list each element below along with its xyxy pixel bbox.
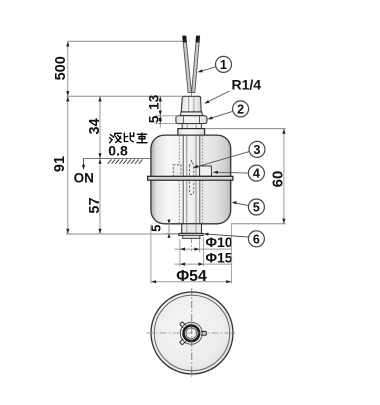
- hub tab upper-left: [180, 322, 186, 328]
- balloon 3: [249, 141, 265, 157]
- dimension line Φ10: [175, 248, 232, 250]
- leader 3: [194, 152, 249, 168]
- reference line at bottom of 91 dim: [66, 233, 178, 235]
- svg-text:Φ54: Φ54: [176, 268, 207, 285]
- balloon 2: [233, 101, 249, 117]
- ON leader arrow: [83, 159, 85, 167]
- reed switch capsule (hidden): [189, 161, 193, 195]
- guide tube outer lines: [182, 136, 184, 224]
- dimension line Φ15: [175, 263, 232, 265]
- hex nut facet lines: [182, 116, 184, 123]
- svg-text:Φ15: Φ15: [206, 249, 233, 265]
- float body: [151, 135, 231, 224]
- dimension 5 (stub): [168, 219, 170, 238]
- hex nut: [176, 116, 207, 124]
- balloon 6: [248, 231, 264, 247]
- bottom view vertical centerline: [191, 288, 193, 378]
- leader 1: [199, 67, 216, 72]
- cap body (threaded plug upper): [181, 96, 201, 112]
- magnet holder right: [200, 166, 212, 176]
- dimension line 500/91: [67, 41, 69, 234]
- svg-text:Φ10: Φ10: [206, 234, 233, 250]
- stub bore lines: [186, 224, 188, 238]
- float flange ring: [148, 176, 233, 180]
- dimension 5 (nut height): [159, 116, 162, 121]
- stub tip: [183, 235, 200, 238]
- svg-text:4: 4: [253, 167, 260, 181]
- extension line nut top: [155, 115, 178, 117]
- svg-text:60: 60: [270, 171, 287, 188]
- neck bore lines: [186, 124, 188, 129]
- magnet holder left (hidden): [173, 165, 181, 177]
- dimension line 60: [283, 129, 285, 224]
- balloon 5: [248, 199, 264, 215]
- bottom view hub outer ring: [180, 322, 202, 344]
- dimension 13 (cap height): [159, 96, 161, 127]
- wire 2 (right lead): [192, 36, 200, 92]
- R1/4 leader: [206, 91, 230, 103]
- reference line at fitting top: [67, 95, 182, 97]
- cap wire channel lines: [188, 97, 190, 112]
- bottom view hub dark ring: [184, 326, 200, 342]
- svg-text:500: 500: [53, 56, 69, 80]
- hidden tube line (left, dotted): [178, 136, 180, 224]
- leader 2: [209, 111, 233, 119]
- extension line float right for Φ54: [230, 225, 232, 284]
- wire 1 stripped tip: [182, 36, 187, 43]
- svg-text:R1/4: R1/4: [232, 77, 262, 93]
- wire 1 (left lead): [183, 36, 192, 92]
- leader 4: [214, 171, 248, 174]
- extension line nut bottom: [155, 122, 177, 124]
- svg-text:57: 57: [87, 197, 103, 213]
- float collar: [178, 129, 205, 136]
- bottom view inner rim circle: [154, 295, 229, 370]
- leader 6: [205, 234, 249, 237]
- extension line 60 bottom: [231, 223, 286, 225]
- svg-text:1: 1: [220, 58, 227, 72]
- wire extension line (top of 500 dim): [68, 40, 186, 42]
- bottom view outer circle: [151, 292, 233, 374]
- label 液比重 (specific gravity): [110, 133, 148, 143]
- hatching at liquid level: [108, 159, 143, 163]
- extension line 60 top: [205, 128, 286, 130]
- svg-text:3: 3: [254, 143, 261, 157]
- bottom stub outer: [182, 224, 202, 234]
- hub tab right: [201, 331, 206, 335]
- hidden tube line (right, dotted): [202, 136, 204, 224]
- bottom view horizontal centerline: [147, 332, 238, 334]
- svg-text:34: 34: [87, 118, 103, 134]
- neck below nut: [182, 124, 201, 129]
- wire 2 stripped tip: [195, 36, 200, 43]
- svg-text:91: 91: [52, 156, 68, 172]
- svg-text:5: 5: [146, 115, 161, 123]
- svg-text:13: 13: [146, 94, 161, 110]
- balloon 1: [216, 56, 232, 72]
- svg-text:0.8: 0.8: [108, 142, 128, 158]
- stub flange: [179, 233, 204, 235]
- svg-text:5: 5: [253, 201, 260, 215]
- extension lines for pipe diameters: [179, 239, 181, 267]
- cap shoulder: [180, 112, 202, 116]
- liquid level line: [84, 158, 151, 160]
- hub tab lower-left: [180, 339, 186, 345]
- guide tube inner lines: [186, 136, 188, 224]
- extension line stub flange: [166, 233, 179, 235]
- bottom view hub bore: [186, 328, 197, 339]
- centerline (vertical axis of float switch): [190, 93, 192, 251]
- dimension line 34/57: [99, 96, 101, 234]
- balloon 4: [248, 165, 264, 181]
- svg-text:2: 2: [237, 102, 244, 116]
- svg-text:ON: ON: [74, 170, 94, 185]
- dimension line Φ54: [151, 281, 232, 283]
- leader 5: [233, 203, 248, 206]
- svg-text:6: 6: [253, 232, 260, 246]
- extension line float left for Φ54: [150, 225, 152, 284]
